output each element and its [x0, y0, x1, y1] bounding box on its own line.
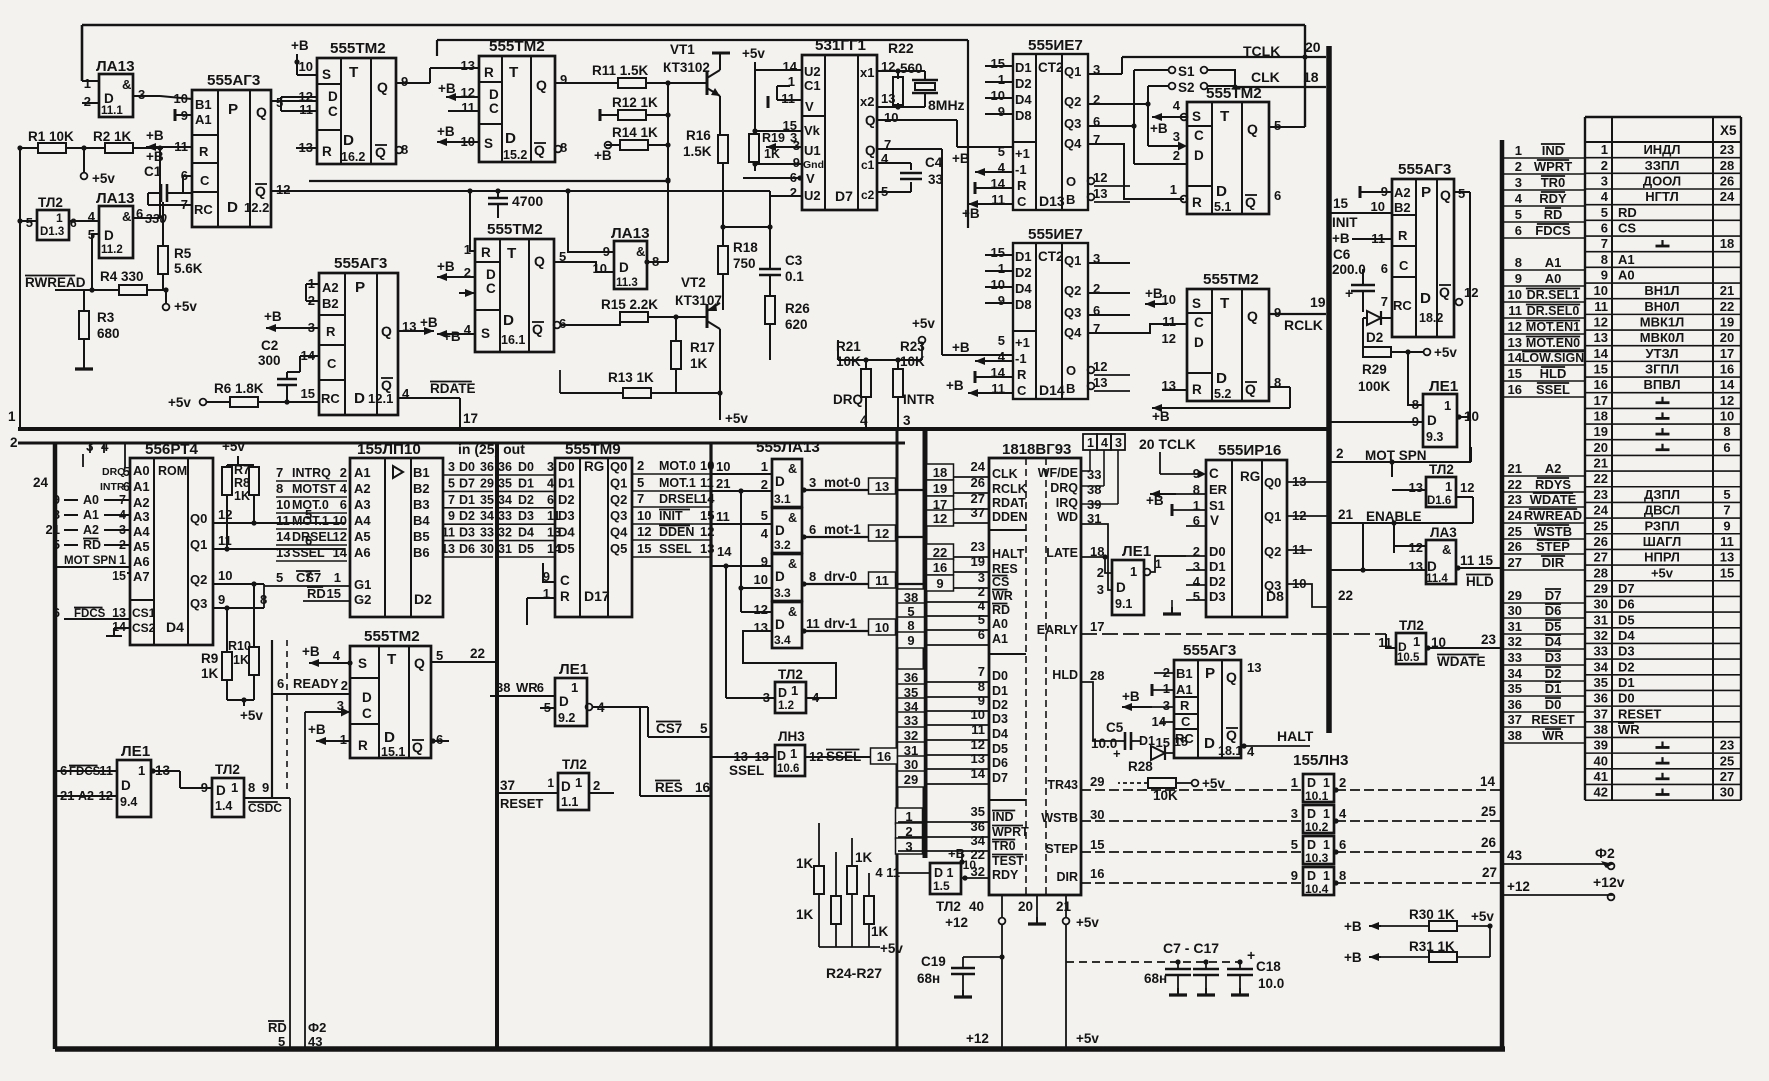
svg-text:4 11: 4 11: [875, 865, 900, 880]
svg-text:5: 5: [278, 1034, 285, 1049]
svg-text:D: D: [104, 228, 114, 243]
svg-text:5: 5: [1515, 207, 1522, 222]
svg-text:14: 14: [276, 529, 291, 544]
svg-text:+12: +12: [966, 1031, 989, 1046]
svg-text:A0: A0: [1618, 268, 1635, 283]
svg-text:Q1: Q1: [1064, 253, 1081, 268]
svg-text:4: 4: [978, 598, 986, 613]
svg-text:D1: D1: [1618, 675, 1635, 690]
power +B arrows D14: [975, 360, 1013, 362]
flip-flop 555ТМ2 D5.2: [1187, 289, 1269, 401]
svg-text:3: 3: [1193, 559, 1200, 574]
ground CS2: [114, 627, 130, 629]
svg-text:Q4: Q4: [1064, 325, 1082, 340]
svg-text:25: 25: [1481, 804, 1497, 819]
svg-text:D7: D7: [835, 188, 853, 204]
svg-text:-1: -1: [1015, 351, 1027, 366]
svg-text:CSDC: CSDC: [248, 801, 282, 815]
svg-text:RESET: RESET: [1618, 706, 1661, 721]
svg-text:D4: D4: [1015, 281, 1032, 296]
svg-text:A0: A0: [133, 463, 150, 478]
svg-text:9: 9: [53, 492, 60, 507]
svg-text:7: 7: [1601, 236, 1608, 251]
svg-text:10: 10: [333, 513, 347, 528]
svg-text:LATE: LATE: [1046, 546, 1078, 560]
svg-text:10: 10: [637, 508, 651, 523]
svg-text:RES: RES: [992, 562, 1018, 576]
svg-text:C1: C1: [804, 78, 821, 93]
svg-text:680: 680: [97, 326, 120, 341]
svg-text:2: 2: [1601, 158, 1608, 173]
svg-text:5: 5: [1291, 837, 1298, 852]
svg-text:8: 8: [809, 569, 816, 584]
svg-text:D2: D2: [1015, 76, 1032, 91]
svg-text:D2: D2: [414, 591, 432, 607]
svg-text:D13: D13: [1039, 193, 1065, 209]
svg-text:ИНДЛ: ИНДЛ: [1643, 142, 1680, 157]
svg-text:5: 5: [1458, 186, 1465, 201]
svg-text:&: &: [788, 462, 797, 476]
svg-text:1.4: 1.4: [215, 799, 232, 813]
svg-text:+B: +B: [1344, 950, 1362, 965]
gate ТЛ2 D10.5: [1396, 633, 1426, 664]
svg-text:D0: D0: [558, 459, 575, 474]
svg-text:2: 2: [593, 778, 600, 793]
svg-text:+B: +B: [291, 38, 309, 53]
svg-text:D: D: [561, 779, 571, 794]
svg-text:22: 22: [1338, 588, 1353, 603]
svg-text:3: 3: [1115, 436, 1122, 450]
wire: [1148, 145, 1180, 147]
svg-text:R9: R9: [201, 651, 218, 666]
svg-text:-1: -1: [1015, 162, 1027, 177]
gate ЛЕ1 D9.2: [555, 678, 587, 726]
svg-text:B6: B6: [413, 545, 430, 560]
svg-text:D: D: [489, 87, 499, 102]
svg-text:22: 22: [1720, 299, 1734, 314]
svg-text:FDCS: FDCS: [1535, 223, 1571, 238]
svg-text:36: 36: [480, 460, 494, 474]
svg-text:D2: D2: [992, 698, 1008, 712]
svg-text:8: 8: [1601, 252, 1608, 267]
wire: [838, 359, 922, 361]
svg-text:9.2: 9.2: [558, 711, 575, 725]
svg-text:R: R: [1192, 382, 1202, 397]
svg-text:+B: +B: [1332, 231, 1350, 246]
svg-text:TR0: TR0: [1541, 175, 1566, 190]
svg-text:RC: RC: [321, 391, 340, 406]
svg-text:4700: 4700: [512, 193, 543, 209]
svg-text:ЛА3: ЛА3: [1430, 525, 1457, 540]
svg-text:Q: Q: [381, 377, 392, 393]
svg-text:8: 8: [1339, 868, 1346, 883]
svg-text:15: 15: [327, 586, 341, 601]
svg-text:MOT.EN0: MOT.EN0: [1526, 336, 1580, 350]
svg-text:R10: R10: [228, 639, 251, 653]
svg-text:34: 34: [1594, 659, 1609, 674]
svg-text:D1: D1: [459, 493, 475, 507]
svg-text:VT2: VT2: [681, 275, 706, 290]
svg-text:&: &: [636, 244, 645, 259]
svg-text:555ТМ2: 555ТМ2: [489, 38, 545, 55]
wire Q10: [877, 119, 957, 121]
svg-text:c2: c2: [861, 188, 875, 202]
svg-text:556РТ4: 556РТ4: [145, 441, 199, 458]
svg-text:2: 2: [978, 584, 985, 599]
resistor R8: [249, 467, 259, 495]
svg-text:1: 1: [1515, 143, 1522, 158]
svg-text:10K: 10K: [900, 354, 925, 369]
svg-text:D5: D5: [992, 742, 1008, 756]
svg-text:A0: A0: [1545, 271, 1562, 286]
svg-text:S: S: [1192, 109, 1201, 124]
wire +12 +5 runs: [1001, 925, 1003, 1049]
svg-text:D2: D2: [459, 509, 475, 523]
wire: [183, 175, 192, 177]
svg-text:+B: +B: [1146, 493, 1164, 508]
svg-text:WDATE: WDATE: [1437, 654, 1486, 669]
svg-text:D: D: [619, 260, 629, 275]
svg-text:+B: +B: [437, 259, 455, 274]
svg-text:15: 15: [1720, 565, 1734, 580]
svg-text:D14: D14: [1039, 382, 1065, 398]
svg-text:10.6: 10.6: [777, 763, 799, 775]
svg-text:12: 12: [333, 529, 347, 544]
svg-text:1: 1: [8, 409, 16, 424]
svg-text:DRSEL: DRSEL: [292, 530, 335, 544]
svg-text:36: 36: [1594, 691, 1608, 706]
svg-text:+B: +B: [952, 151, 970, 166]
power +B: [309, 662, 350, 664]
svg-text:11.4: 11.4: [1426, 573, 1448, 585]
svg-text:5: 5: [700, 721, 708, 736]
svg-text:Q3: Q3: [1064, 305, 1081, 320]
svg-text:A2: A2: [354, 481, 371, 496]
wire WSTB run: [1081, 820, 1303, 822]
svg-text:CS7: CS7: [656, 721, 682, 736]
wire Q1 Q2 Q3: [213, 548, 345, 550]
svg-text:10.3: 10.3: [1305, 851, 1329, 865]
svg-text:D8: D8: [1015, 297, 1032, 312]
svg-text:R16: R16: [686, 128, 711, 143]
svg-text:CLK: CLK: [1251, 69, 1280, 85]
svg-text:X5: X5: [1720, 123, 1737, 138]
svg-text:D1: D1: [1209, 559, 1226, 574]
svg-text:A5: A5: [133, 539, 150, 554]
svg-text:C2: C2: [261, 338, 278, 353]
svg-text:3: 3: [809, 475, 816, 490]
svg-text:D: D: [1194, 148, 1204, 163]
svg-text:4: 4: [1193, 574, 1201, 589]
svg-text:7: 7: [637, 491, 644, 506]
svg-text:Q2: Q2: [1064, 283, 1081, 298]
svg-text:555ИЕ7: 555ИЕ7: [1028, 226, 1083, 243]
svg-text:D: D: [384, 729, 395, 746]
multivibrator 555АГ3 D12.1: [319, 273, 398, 415]
svg-text:6: 6: [436, 732, 443, 747]
svg-text:9: 9: [1601, 268, 1608, 283]
svg-text:3: 3: [1291, 806, 1298, 821]
svg-text:VT1: VT1: [670, 42, 695, 57]
svg-text:DIR: DIR: [1056, 870, 1078, 884]
svg-text:36: 36: [904, 670, 918, 685]
svg-text:10: 10: [218, 568, 232, 583]
svg-text:MOT.1: MOT.1: [659, 476, 696, 490]
svg-text:7: 7: [1723, 503, 1730, 518]
svg-text:6: 6: [1723, 440, 1730, 455]
svg-text:155ЛП10: 155ЛП10: [357, 441, 421, 458]
svg-text:9: 9: [401, 74, 408, 89]
svg-text:R: R: [199, 144, 209, 159]
svg-text:1: 1: [761, 459, 768, 474]
svg-text:34: 34: [1508, 666, 1523, 681]
svg-text:16: 16: [695, 780, 711, 795]
svg-text:U2: U2: [804, 64, 821, 79]
power +B: [266, 327, 319, 329]
multivibrator 555АГ3 D18.1: [1174, 660, 1241, 758]
svg-text:ЛА13: ЛА13: [96, 58, 135, 75]
svg-text:RWREAD: RWREAD: [1524, 508, 1582, 523]
svg-text:Q: Q: [256, 104, 267, 120]
svg-text:5.2: 5.2: [1214, 387, 1231, 401]
svg-text:0.1: 0.1: [785, 269, 804, 284]
svg-text:B: B: [1066, 192, 1075, 207]
crystal 8MHz: [916, 70, 925, 72]
svg-text:555АГ3: 555АГ3: [1183, 642, 1236, 659]
svg-text:D4: D4: [1015, 92, 1032, 107]
wire: [160, 96, 192, 99]
svg-text:15.2: 15.2: [503, 148, 527, 162]
svg-text:Q: Q: [412, 739, 423, 755]
svg-text:13: 13: [276, 545, 290, 560]
svg-text:15: 15: [1333, 196, 1349, 211]
svg-text:RD: RD: [992, 603, 1010, 617]
svg-text:8: 8: [53, 507, 60, 522]
svg-text:8: 8: [907, 618, 914, 633]
svg-text:26: 26: [1481, 835, 1497, 850]
svg-text:1.1: 1.1: [561, 795, 578, 809]
svg-text:R17: R17: [690, 340, 715, 355]
svg-text:Q: Q: [377, 79, 388, 95]
svg-text:15: 15: [991, 245, 1005, 260]
svg-text:14: 14: [1480, 774, 1496, 789]
svg-text:G1: G1: [354, 577, 371, 592]
svg-text:A5: A5: [354, 529, 371, 544]
svg-text:40: 40: [1594, 753, 1608, 768]
svg-text:+5v: +5v: [1076, 1031, 1099, 1046]
gate ЛЕ1 D9.4: [117, 760, 151, 817]
node bus-A: [1326, 46, 1332, 733]
svg-text:3: 3: [978, 570, 985, 585]
svg-text:15: 15: [1156, 735, 1170, 750]
svg-text:+5v: +5v: [1202, 776, 1225, 791]
svg-text:12: 12: [1594, 315, 1608, 330]
svg-text:37: 37: [971, 505, 985, 520]
svg-text:Q: Q: [381, 323, 392, 339]
svg-text:18: 18: [1720, 236, 1734, 251]
svg-text:Q: Q: [1247, 121, 1258, 137]
svg-text:13: 13: [461, 58, 475, 73]
svg-text:&: &: [788, 605, 797, 619]
svg-text:MOT SPN: MOT SPN: [1365, 448, 1427, 463]
svg-text:13: 13: [875, 479, 889, 494]
svg-text:RD: RD: [1618, 205, 1637, 220]
svg-text:Q: Q: [1226, 669, 1237, 685]
wire: [1269, 386, 1290, 388]
power +5v: [165, 290, 167, 304]
svg-text:mot-0: mot-0: [824, 475, 861, 490]
svg-text:&: &: [1442, 542, 1451, 557]
flip-flop 555ТМ2 D16.1: [475, 239, 554, 352]
svg-text:ЛЕ1: ЛЕ1: [121, 743, 151, 760]
svg-text:1: 1: [84, 76, 91, 91]
svg-text:D3: D3: [992, 712, 1008, 726]
svg-text:1: 1: [571, 680, 578, 695]
svg-text:38: 38: [1508, 728, 1522, 743]
svg-text:4: 4: [88, 209, 96, 224]
svg-text:+B: +B: [594, 148, 612, 163]
svg-text:Vk: Vk: [804, 123, 821, 138]
svg-text:+5v: +5v: [880, 941, 903, 956]
svg-text:14: 14: [333, 545, 348, 560]
svg-text:D3: D3: [558, 508, 575, 523]
svg-text:15: 15: [1090, 837, 1104, 852]
svg-text:B1: B1: [1176, 666, 1193, 681]
svg-text:R: R: [326, 324, 336, 339]
svg-text:CT2: CT2: [1038, 249, 1064, 264]
multivibrator 555АГ3 D12.2: [192, 90, 271, 227]
gate ТЛ2 D1.5: [930, 863, 961, 894]
svg-text:10K: 10K: [836, 354, 861, 369]
svg-text:620: 620: [785, 317, 808, 332]
svg-text:11.1: 11.1: [101, 105, 123, 117]
svg-text:+5v: +5v: [1076, 915, 1099, 930]
svg-text:7: 7: [448, 493, 455, 507]
svg-text:A3: A3: [133, 509, 150, 524]
svg-text:3: 3: [790, 130, 797, 145]
svg-text:D: D: [1307, 776, 1316, 790]
svg-text:ВПВЛ: ВПВЛ: [1644, 377, 1681, 392]
svg-text:8: 8: [1723, 424, 1730, 439]
svg-text:23: 23: [1594, 487, 1608, 502]
svg-text:x2: x2: [860, 94, 874, 109]
svg-text:HLD: HLD: [1540, 366, 1567, 381]
svg-text:ВН0Л: ВН0Л: [1644, 299, 1679, 314]
resistor R16: [718, 135, 728, 163]
svg-text:5.6K: 5.6K: [174, 261, 203, 276]
svg-text:R: R: [1192, 195, 1202, 210]
svg-text:C19: C19: [921, 954, 946, 969]
svg-text:1: 1: [1087, 436, 1094, 450]
svg-text:5: 5: [436, 648, 443, 663]
wire: [179, 771, 181, 788]
svg-text:D1: D1: [992, 684, 1008, 698]
gate 555ЛА13 D3.3: [772, 554, 802, 601]
svg-text:ТЛ2: ТЛ2: [936, 899, 961, 914]
svg-text:+5v: +5v: [1434, 345, 1457, 360]
svg-text:36: 36: [498, 460, 512, 474]
svg-text:12: 12: [1464, 285, 1478, 300]
svg-text:R2 1K: R2 1K: [93, 129, 132, 144]
svg-text:+: +: [1247, 947, 1255, 963]
svg-text:S1: S1: [1178, 64, 1195, 79]
svg-text:6: 6: [978, 627, 985, 642]
svg-text:8: 8: [1515, 255, 1522, 270]
svg-text:LOW.SIGN: LOW.SIGN: [1522, 351, 1585, 365]
svg-text:R24-R27: R24-R27: [826, 965, 882, 981]
svg-text:ТЛ2: ТЛ2: [215, 762, 240, 777]
svg-text:ЛА13: ЛА13: [611, 225, 650, 242]
wire: [55, 1046, 1505, 1052]
svg-text:D7: D7: [1618, 581, 1635, 596]
gate ТЛ2 D1.2: [775, 682, 806, 713]
svg-text:ROM: ROM: [158, 464, 187, 478]
svg-text:555ТМ9: 555ТМ9: [565, 441, 621, 458]
svg-text:32: 32: [1594, 628, 1608, 643]
wire: [162, 202, 164, 246]
wire: [306, 283, 319, 285]
svg-text:HLD: HLD: [1466, 574, 1494, 589]
svg-text:25: 25: [1508, 524, 1522, 539]
svg-text:D: D: [216, 783, 226, 798]
svg-text:3.4: 3.4: [774, 633, 791, 647]
svg-text:V: V: [1210, 513, 1219, 528]
svg-text:1K: 1K: [690, 356, 708, 371]
svg-text:21: 21: [1720, 283, 1734, 298]
svg-text:D4: D4: [518, 526, 534, 540]
svg-text:33: 33: [928, 172, 944, 187]
svg-text:17: 17: [1090, 619, 1104, 634]
svg-text:6: 6: [1381, 261, 1388, 276]
svg-text:16: 16: [933, 560, 947, 575]
svg-text:3: 3: [1515, 175, 1522, 190]
svg-text:DRSEL: DRSEL: [659, 492, 702, 506]
resistor R5: [158, 246, 168, 274]
svg-text:43: 43: [308, 1034, 322, 1049]
svg-text:6: 6: [277, 676, 284, 691]
node RDATE: [398, 397, 460, 399]
wire +12v out: [1502, 894, 1613, 896]
svg-text:Q0: Q0: [610, 459, 627, 474]
svg-text:10: 10: [1508, 287, 1522, 302]
svg-text:T: T: [387, 651, 397, 668]
svg-text:RD: RD: [268, 1020, 287, 1035]
svg-text:30: 30: [1508, 603, 1522, 618]
svg-text:T: T: [1220, 108, 1230, 125]
svg-text:R28: R28: [1128, 759, 1153, 774]
svg-text:9: 9: [907, 633, 914, 648]
switch S1: [1169, 67, 1176, 74]
svg-text:A2: A2: [1394, 185, 1411, 200]
svg-text:39: 39: [1594, 738, 1608, 753]
svg-text:28: 28: [1594, 565, 1608, 580]
svg-text:RDATE: RDATE: [430, 381, 476, 396]
svg-text:20 TCLK: 20 TCLK: [1139, 436, 1196, 452]
svg-text:R23: R23: [900, 339, 925, 354]
svg-text:1: 1: [1601, 142, 1608, 157]
svg-text:Ф2: Ф2: [308, 1020, 326, 1035]
svg-text:5: 5: [448, 476, 455, 490]
svg-text:21: 21: [1056, 899, 1072, 914]
svg-text:D4: D4: [558, 525, 575, 540]
svg-text:IRQ: IRQ: [1056, 496, 1079, 510]
gate ТЛ2 D1.6: [1426, 477, 1456, 507]
svg-text:WR: WR: [992, 589, 1013, 603]
svg-text:35: 35: [1508, 681, 1522, 696]
svg-text:31: 31: [1508, 619, 1522, 634]
svg-text:RCLK: RCLK: [1284, 317, 1323, 333]
svg-text:9: 9: [1515, 271, 1522, 286]
